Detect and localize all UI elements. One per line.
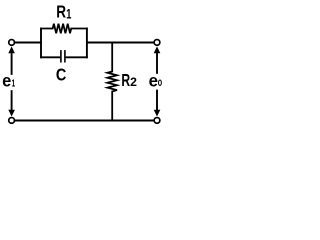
wire: top rail right segment (87, 42, 157, 44)
label e1 (2, 71, 15, 90)
resistor R1 (top branch of parallel block) (40, 24, 88, 34)
svg-text:e: e (149, 71, 158, 90)
arrow: e1 lower (points down at input) (8, 90, 15, 116)
svg-text:e: e (2, 71, 11, 90)
svg-text:C: C (56, 65, 67, 85)
resistor R2 (shunt branch) (107, 42, 117, 122)
wire: bottom rail (12, 120, 157, 122)
label eo (149, 71, 163, 90)
arrow: e1 upper (points up at input) (8, 46, 15, 75)
svg-text:R: R (56, 3, 66, 22)
svg-text:1: 1 (66, 7, 72, 22)
svg-text:R: R (121, 72, 130, 90)
capacitor C (bottom branch of parallel block) (40, 50, 88, 62)
svg-text:1: 1 (12, 77, 16, 89)
terminal: input top (9, 40, 15, 46)
terminal: input bottom (9, 118, 15, 124)
svg-text:o: o (158, 76, 162, 89)
wire: parallel-block left vertical (40, 28, 42, 59)
terminal: output top (154, 40, 160, 46)
wire: parallel-block right vertical (86, 28, 88, 59)
terminal: output bottom (154, 118, 160, 124)
arrow: eo upper (points up at output) (154, 46, 161, 73)
label R1 (56, 3, 71, 22)
wire: top rail left segment (12, 42, 42, 44)
svg-text:2: 2 (130, 75, 137, 89)
label R2 (121, 72, 137, 90)
arrow: eo lower (points down at output) (154, 90, 161, 117)
